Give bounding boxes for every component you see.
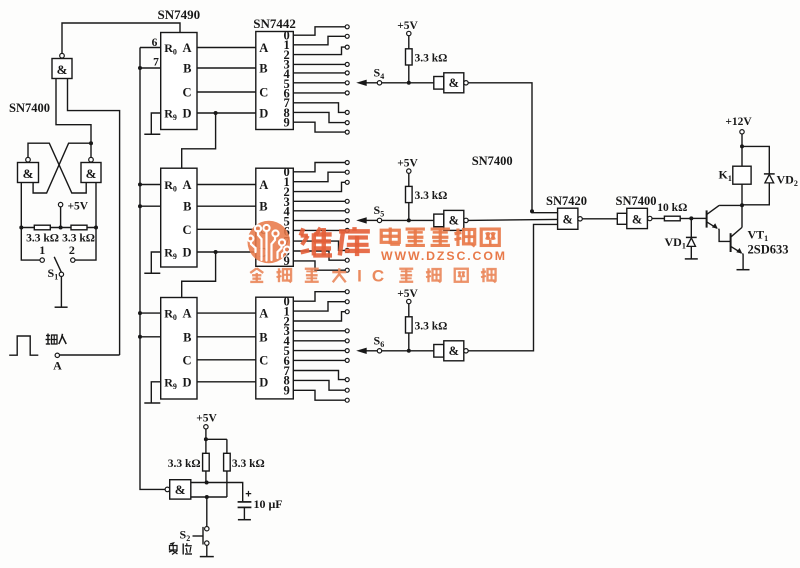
node: selector contact 1 (stage 1) [345,34,349,38]
node: selector contact 4 (stage 2) [345,209,349,213]
decoder U4 SN7442 box [256,29,293,130]
svg-text:B: B [183,200,191,214]
svg-text:7: 7 [153,57,159,69]
wire: decoder U4 output 1 [293,36,345,45]
svg-text:SN7400: SN7400 [616,194,657,208]
ground (S2) [200,556,214,558]
wire: VT1 emitter to ground [742,253,745,269]
wire: decoder U6 output 9 [293,390,345,400]
svg-text:&: & [562,213,572,227]
watermark big glyph ku [339,227,370,256]
svg-text:S5: S5 [374,203,385,219]
watermark big glyph wei [301,228,332,256]
transistor-free latch NAND gate b (left) [18,157,39,182]
svg-text:B: B [259,62,267,76]
wire: U2 D cascade to next counter [182,252,216,298]
svg-text:B: B [259,200,267,214]
label SN7490 [158,7,201,22]
wire: decoder U6 output 6 [293,359,345,361]
svg-text:D: D [259,375,268,389]
wire: pull-up resistor row [21,227,96,229]
svg-text:+5V: +5V [68,201,89,213]
svg-text:+5V: +5V [397,20,418,32]
label SN7400 (middle gate) [472,154,513,168]
wire: decoder U4 output 3 [293,63,345,65]
svg-text:&: & [57,62,68,77]
wire: 7490-1 pin7 stub [138,66,161,70]
wire: decoder U4 output 8 [293,112,345,122]
switch S5 terminal [377,218,381,222]
svg-text:D: D [182,375,191,389]
svg-text:9: 9 [284,115,290,129]
wire: R9 of U2 to ground [151,252,160,273]
svg-text:SN7420: SN7420 [546,194,587,208]
node A terminal [53,353,62,372]
svg-text:3.3 kΩ: 3.3 kΩ [168,458,201,470]
decoder U5 SN7442 box [256,165,293,268]
svg-text:VD2: VD2 [777,173,798,189]
ground (capacitor) [238,519,251,521]
wire: decoder U5 output 9 [293,261,345,270]
wire: U1 D to decoder [197,111,256,115]
wire: S5 to gate input [382,218,434,222]
node: selector contact 2 (stage 2) [345,180,349,184]
switch S4 wiper arrow [356,80,377,86]
node: selector contact 7 (stage 3) [345,378,349,382]
wire: S5 gate output to SN7420 input 2 [468,219,557,220]
svg-text:&: & [86,166,97,181]
wire: U1 D cascade to next counter [182,113,216,168]
wire: decoder U6 output 8 [293,380,345,390]
relay K1 coil [719,166,752,184]
wire: reset gate bottom line to S2 [191,495,227,499]
svg-text:SN7490: SN7490 [158,7,201,22]
label shu-ru (input) glyphs [46,334,67,345]
svg-text:S6: S6 [374,333,385,349]
node: selector contact 8 (stage 2) [345,258,349,262]
svg-text:10 kΩ: 10 kΩ [657,202,687,214]
label S4 [374,65,385,81]
diode VD2 [742,174,775,205]
svg-text:&: & [23,166,34,181]
svg-text:3.3 kΩ: 3.3 kΩ [415,52,448,64]
power +5V (latch) [58,201,88,230]
wire: U3 D to decoder [197,381,256,383]
wire: gate-a right input from node A riser [68,79,120,356]
wire: U2 D to decoder [197,250,256,254]
label S1 [48,266,59,282]
svg-text:K1: K1 [719,168,732,184]
svg-text:C: C [182,86,191,100]
wire: S4 gate output down to SN7420 input 1 [468,83,557,213]
svg-text:C: C [182,223,191,237]
label SN7442 [253,16,296,31]
node: selector contact 5 (stage 1) [345,81,349,85]
svg-text:C: C [259,86,268,100]
node: selector contact 2 (stage 3) [345,310,349,314]
wire: U1 C to decoder [197,91,256,93]
switch S4 terminal [377,81,381,85]
svg-text:+5V: +5V [397,157,418,169]
wire: relay node up to K1 [741,184,743,205]
svg-text:S4: S4 [374,65,385,81]
svg-text:S2: S2 [180,528,191,544]
wire: Q1 collector to relay node [719,204,742,206]
wire: Q1 emitter to Q2 base [719,229,731,242]
wire: U3 C to decoder [197,359,256,361]
wire: decoder U6 output 7 [293,371,345,380]
node: selector contact 2 (stage 1) [345,45,349,49]
resistor 3.3k (reset right) [224,439,265,497]
wire: base node to Q1 [691,217,706,219]
wire: gate-a left input from latch Q [56,79,91,142]
nand gate U3b (stage 3) [434,341,468,361]
wire: S2 top [206,497,208,526]
node: selector contact 0 (stage 2) [345,161,349,165]
svg-text:6: 6 [152,37,158,49]
svg-text:A: A [259,307,268,321]
resistor 3.3k pull-up (stage 2) [406,186,448,220]
waveform input pulse symbol [9,336,38,355]
switch S5 wiper arrow [356,217,377,223]
node: selector contact 4 (stage 1) [345,71,349,75]
resistor 3.3k pull-up (stage 3) [406,317,448,351]
switch S2 pushbutton [193,527,210,546]
svg-text:A: A [53,359,62,373]
label contact 2 [69,243,75,257]
node: selector contact 3 (stage 3) [345,329,349,333]
wire: U2 B to decoder [197,205,256,207]
wire: SN7420 to SN7400 driver [582,218,617,220]
svg-text:A: A [259,178,268,192]
resistor 3.3k pull-up (stage 1) [406,49,448,83]
node: selector contact 6 (stage 1) [345,91,349,95]
svg-text:B: B [183,330,191,344]
node: selector contact 0 (stage 1) [345,25,349,29]
label S6 [374,333,385,349]
wire: reset bus stubs to U2 [138,183,161,209]
node: selector contact 5 (stage 2) [345,219,349,223]
svg-text:2SD633: 2SD633 [748,243,789,257]
latch NAND gate c (right) [81,157,101,182]
switch S1 contacts [40,258,75,262]
svg-text:3.3 kΩ: 3.3 kΩ [232,458,265,470]
wire: decoder U5 output 5 [293,220,345,222]
wire: S1 pivot to ground [60,277,62,308]
svg-text:&: & [449,344,459,358]
node: latch right output junction [89,141,93,145]
wire: decoder U5 output 0 [293,163,345,172]
ground (U2 R9) [144,272,160,274]
node: selector contact 3 (stage 1) [345,62,349,66]
node: selector contact 3 (stage 2) [345,199,349,203]
ground (VD1) [685,258,698,260]
power +12V [725,116,752,134]
wire: U3 B to decoder [197,336,256,338]
wire: S2 bottom to ground [206,545,208,556]
node: selector contact 6 (stage 2) [345,228,349,232]
wire: decoder U4 output 6 [293,92,345,94]
wire: S6 gate output up to SN7420 input 3 [468,224,557,350]
node: selector contact 9 (stage 2) [345,268,349,272]
node: selector contact 8 (stage 1) [345,121,349,125]
svg-text:A: A [182,41,191,55]
svg-text:A: A [182,307,191,321]
wire: 7490-1 pin6 stub [140,47,161,49]
resistor 3.3k (S1 contact 2 pull-up) [62,225,95,244]
node: selector contact 5 (stage 3) [345,349,349,353]
wire: reset bus stubs to U3 [138,311,161,339]
switch S6 wiper arrow [356,348,377,354]
wire: U2 A to decoder [197,184,256,186]
svg-text:VT1: VT1 [748,228,769,244]
power +5V (stage 1) [397,20,418,49]
svg-text:&: & [449,76,459,90]
svg-text:B: B [183,62,191,76]
svg-text:9: 9 [284,384,290,398]
counter U2 SN7490 box [161,168,197,267]
label pin 7 [153,57,159,69]
label VD2 [777,173,798,189]
wire: VT1 collector to relay node [740,203,744,227]
wire: node A to riser [60,354,120,356]
wire: decoder U6 output 5 [293,350,345,352]
wire: U3 A to decoder [197,312,256,314]
svg-text:+: + [245,489,251,501]
power +5V (stage 3) [397,288,418,317]
wire: R9 of U1 to ground [151,113,160,134]
watermark www.dzsc.com text [381,249,507,263]
switch S1 lever and pivot [54,257,63,277]
resistor 3.3k (S1 contact 1 pull-up) [26,225,59,244]
svg-text:+5V: +5V [196,413,217,425]
label 2SD633 [748,243,789,257]
counter U1 SN7490 box [161,33,197,130]
power +5V (stage 2) [397,157,418,186]
watermark bottom row glyphs quan-qiu-zui-da-IC-cai-gou-wang-zhan [250,267,495,286]
svg-text:10 μF: 10 μF [254,497,283,511]
wire: decoder U4 output 5 [293,82,345,84]
wire: R9 of U3 to ground [151,382,160,403]
label VD1 [665,235,686,251]
nand gate U9 (reset) [165,480,191,499]
svg-text:WWW.DZSC.COM: WWW.DZSC.COM [381,249,507,263]
wire: 10k to base node [680,216,693,220]
wire: decoder U5 output 4 [293,210,345,212]
node: selector contact 8 (stage 3) [345,388,349,392]
wire: decoder U4 output 2 [293,47,345,54]
wire: decoder U5 output 1 [293,172,345,182]
node: selector contact 9 (stage 3) [345,398,349,402]
ground (VT1) [737,269,750,271]
diode VD1 [686,218,697,258]
svg-text:&: & [632,212,642,226]
svg-text:A: A [259,41,268,55]
transistor VT1 2SD633 [731,227,743,253]
wire: decoder U4 output 7 [293,103,345,113]
wire: decoder U6 output 0 [293,292,345,302]
wire: decoder U5 output 2 [293,182,345,191]
svg-text:I: I [357,267,362,286]
svg-text:C: C [259,353,268,367]
label SN7400 [9,101,50,115]
wire: latch left gate to contact 1 [21,183,40,261]
wire: latch right gate to contact 2 [75,183,96,261]
label 10uF [254,497,283,511]
svg-text:SN7400: SN7400 [472,154,513,168]
svg-text:3.3 kΩ: 3.3 kΩ [415,190,448,202]
watermark glyphs dian-zi-shi-chang-wang [381,228,499,247]
wire: decoder U4 output 9 [293,122,345,132]
wire: decoder U5 output 6 [293,229,345,231]
switch S6 terminal [377,349,381,353]
ground (U3 R9) [144,402,160,404]
wire: decoder U5 output 3 [293,200,345,202]
node: selector contact 1 (stage 3) [345,300,349,304]
watermark dzsc logo circle [247,221,290,264]
ground (S1) [55,306,68,308]
label pin 6 [152,37,158,49]
wire: decoder U6 output 1 [293,302,345,311]
counter U3 SN7490 box [161,298,197,400]
nand gate U2b (stage 2) [434,210,468,230]
svg-text:&: & [449,214,459,228]
svg-text:&: & [175,482,186,497]
wire: S4 to gate input [382,81,434,85]
svg-text:+12V: +12V [725,116,752,128]
node: selector contact 1 (stage 2) [345,170,349,174]
svg-text:C: C [182,353,191,367]
resistor 3.3k (reset left) [168,439,209,482]
wire: S6 to gate input [382,349,434,353]
wire: U1 A to decoder [197,47,256,49]
nand U8 SN7400 driver [616,194,657,229]
wire: decoder U4 output 0 [293,27,345,35]
wire: reset gate top line to capacitor [191,481,243,502]
node: resistor row corners [19,226,98,230]
svg-text:C: C [372,267,384,286]
label VT1 [748,228,769,244]
node: selector contact 0 (stage 3) [345,290,349,294]
wire: U2 C to decoder [197,228,256,230]
svg-text:VD1: VD1 [665,235,686,251]
wire: K1 to +12V node [740,134,744,166]
wire: decoder U4 output 4 [293,72,345,74]
wire: decoder U6 output 2 [293,312,345,321]
wire: decoder U6 output 4 [293,340,345,342]
nand U7 SN7420 [546,194,587,229]
svg-text:1: 1 [39,243,45,257]
wire: U1 B to decoder [197,67,256,69]
label S2 [180,528,191,544]
ground (U1 R9) [144,133,160,135]
node: selector contact 7 (stage 2) [345,248,349,252]
svg-text:3.3 kΩ: 3.3 kΩ [62,233,95,245]
svg-text:B: B [259,330,267,344]
wire: decoder U6 output 3 [293,330,345,332]
wire: latch cross-couple right-out to left-in [33,143,91,193]
capacitor 10uF polarized [238,489,252,520]
label contact 1 [39,243,45,257]
svg-text:D: D [182,246,191,260]
svg-text:A: A [182,178,191,192]
op-amp U-top NAND gate (SN7400 a) [52,53,72,78]
node: selector contact 9 (stage 1) [345,130,349,134]
svg-text:D: D [182,107,191,121]
nand gate U1b (stage 1) [434,73,468,93]
node: selector contact 4 (stage 3) [345,339,349,343]
wire: VD2 branch [742,146,769,174]
wire: latch cross-couple left-out to right-in [28,143,86,193]
label S5 [374,203,385,219]
svg-text:S1: S1 [48,266,59,282]
wire: decoder U5 output 8 [293,251,345,260]
svg-text:3.3 kΩ: 3.3 kΩ [415,320,448,332]
transistor Q1 (darlington first) [707,205,720,228]
svg-text:SN7400: SN7400 [9,101,50,115]
svg-text:+5V: +5V [397,288,418,300]
label fu-wei (reset) glyphs [169,543,192,555]
resistor 10k base [652,202,687,221]
wire: top NAND output to SN7490-1 clock [62,23,180,53]
svg-text:2: 2 [69,243,75,257]
power +5V (reset) [196,413,227,442]
wire: reset bus vertical [140,48,165,490]
node: selector contact 7 (stage 1) [345,110,349,114]
wire: decoder U5 output 7 [293,241,345,250]
node: selector contact 6 (stage 3) [345,358,349,362]
svg-text:D: D [259,107,268,121]
decoder U6 SN7442 box [256,295,293,399]
